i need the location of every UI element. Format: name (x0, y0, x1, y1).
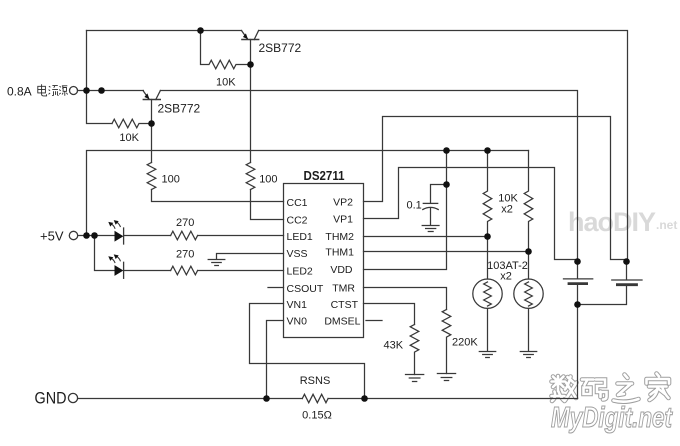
svg-text:THM2: THM2 (325, 231, 354, 243)
svg-text:0.8A: 0.8A (7, 85, 32, 99)
terminal 0.8A current source (70, 87, 78, 95)
wire +5V riser and rail to 10K x2 pullup 2 (87, 151, 529, 236)
svg-text:DS2711: DS2711 (304, 168, 345, 183)
LED D1 (108, 220, 123, 244)
capacitor C1 0.1 (422, 185, 446, 232)
svg-text:VP2: VP2 (333, 197, 353, 209)
node: +5V LED2 branch (91, 232, 98, 239)
wire TMR to 220K (364, 288, 447, 310)
svg-text:10K: 10K (119, 132, 139, 144)
node: battery2 top (623, 258, 630, 265)
WATERMARKS (551, 207, 677, 434)
resistor 270 (LED1) (171, 231, 198, 240)
resistor 43K (410, 325, 419, 375)
wire 0.8A terminal to Q2 emitter (78, 90, 144, 92)
resistor 100 (left) (147, 163, 156, 190)
node: VN0 / GND line (263, 395, 270, 402)
node: THM1 / pullup2 (525, 248, 532, 255)
wire +5V terminal to LED1 (78, 235, 115, 237)
svg-text:CC1: CC1 (287, 197, 308, 209)
wire 270 to LED1 pin (198, 235, 284, 237)
resistor 10K x2 (pullup 1) (483, 151, 492, 237)
wire LED1 to 270 resistor (124, 235, 171, 237)
svg-text:CC2: CC2 (287, 214, 308, 226)
wire VDD to +5V tap vertical (364, 151, 447, 270)
node: THM2 / pullup1 (484, 233, 491, 240)
svg-text:VSS: VSS (287, 248, 308, 260)
wire THM1 to 10K pullup 2 (364, 251, 529, 253)
wire 100 right bottom to CC2 (251, 190, 284, 220)
svg-text:LED2: LED2 (287, 266, 313, 278)
wire GND line right (328, 398, 577, 400)
svg-text:haoDIY: haoDIY (568, 207, 656, 237)
resistor 10K (Q2 base) (112, 119, 152, 128)
wire THM2 to 10K pullup 1 (364, 236, 488, 238)
svg-text:.net: .net (656, 218, 677, 232)
resistor 10K (Q1 base) (201, 31, 251, 69)
svg-text:VDD: VDD (330, 264, 353, 276)
wire CTST to 43K (364, 304, 415, 325)
wire LED2 to 270 resistor (124, 270, 171, 272)
node: battery negatives join (574, 301, 581, 308)
wire pullup2 to thermistor 2 (528, 252, 530, 280)
node: +5V riser junction (83, 232, 90, 239)
svg-text:100: 100 (259, 174, 277, 186)
node: rail / pullup1 (484, 147, 491, 154)
wire left vertical from top rail down to 0.8A node and 10K base resistor (87, 31, 113, 124)
battery BT1 (564, 262, 593, 399)
node: rail / VDD tap (443, 147, 450, 154)
svg-text:270: 270 (176, 217, 194, 229)
wire Q2 base vertical down to 100 ohm resistor 1 (151, 124, 153, 163)
ground (220K) (437, 374, 455, 381)
svg-text:0.1: 0.1 (407, 200, 422, 212)
resistor 220K (442, 310, 451, 374)
svg-text:RSNS: RSNS (300, 375, 331, 387)
svg-text:CSOUT: CSOUT (287, 283, 324, 295)
watermark shuma zhijia glyphs (hollow bold strokes) (552, 374, 670, 402)
wire VP2 riser to battery 2 top (364, 117, 627, 260)
svg-text:x2: x2 (500, 270, 512, 282)
node: 0.8A line second junction (98, 87, 105, 94)
node: 0.8A rail junction (83, 87, 90, 94)
resistor 270 (LED2) (171, 266, 198, 275)
wire pullup1 to thermistor 1 (487, 237, 489, 280)
thermistor RT2 103AT-2 (514, 279, 543, 358)
svg-text:2SB772: 2SB772 (259, 41, 302, 55)
terminal GND (68, 393, 77, 402)
svg-text:270: 270 (176, 249, 194, 261)
LED D2 (108, 254, 123, 278)
wire 100 left bottom to CC1 (152, 190, 284, 202)
wire branch to LED2 row (95, 236, 115, 271)
wire VSS to ground (217, 254, 284, 259)
wire DMSEL stub (366, 320, 382, 322)
IC U1 DS2711 box (284, 184, 364, 338)
svg-text:DMSEL: DMSEL (324, 315, 360, 327)
wire top supply rail left (87, 30, 242, 32)
svg-text:x2: x2 (501, 204, 513, 216)
battery BT2 (578, 262, 643, 305)
wire CSOUT stub (268, 287, 284, 289)
wire Q1 base vertical down to 100 ohm resistor 2 (250, 65, 252, 163)
ground (VSS) (208, 260, 225, 266)
svg-text:43K: 43K (384, 339, 404, 351)
node: VN1 / RSNS right (361, 395, 368, 402)
label dianliuyuan glyphs (38, 84, 68, 96)
wire VN0 to GND line (267, 321, 284, 399)
pin labels right (324, 197, 360, 328)
wire GND line left (78, 398, 303, 400)
node: battery1 top (574, 258, 581, 265)
svg-text:VP1: VP1 (333, 214, 353, 226)
terminal +5V (69, 231, 77, 239)
transistor Q1 2SB772 (top PNP) (242, 31, 259, 65)
node: Q1 base / 10K (247, 61, 254, 68)
svg-text:0.15Ω: 0.15Ω (302, 409, 332, 421)
resistor RSNS 0.15ohm (302, 394, 328, 402)
svg-text:100: 100 (162, 174, 180, 186)
pin labels left (287, 197, 324, 327)
svg-text:VN0: VN0 (287, 315, 308, 327)
svg-text:LED1: LED1 (287, 231, 313, 243)
svg-text:CTST: CTST (331, 299, 359, 311)
thermistor RT1 103AT-2 (473, 279, 502, 358)
wire top rail right segment to right edge and down to battery 2 (259, 31, 628, 262)
wire 270 to LED2 pin (198, 270, 284, 272)
ground (43K) (406, 375, 424, 382)
svg-text:220K: 220K (452, 336, 478, 348)
wire VP1 riser to battery 1 top (364, 168, 578, 260)
wire Q2 collector line to right then down to battery 1 (160, 91, 577, 262)
svg-text:THM1: THM1 (325, 247, 354, 259)
svg-text:TMR: TMR (332, 283, 355, 295)
svg-text:GND: GND (35, 390, 67, 408)
svg-text:2SB772: 2SB772 (158, 102, 201, 116)
node: top rail / 10K (197, 27, 204, 34)
resistor 10K x2 (pullup 2) (524, 151, 533, 252)
wire VN1 to RSNS right node (250, 304, 365, 399)
node: cap 0.1 tap (443, 181, 450, 188)
svg-text:VN1: VN1 (287, 299, 308, 311)
svg-text:+5V: +5V (40, 229, 64, 244)
resistor 100 (right) (246, 163, 255, 190)
node: Q2 base / 10K (148, 120, 155, 127)
transistor Q2 2SB772 (lower PNP) (143, 91, 160, 124)
svg-text:MyDigit.net: MyDigit.net (551, 402, 673, 434)
svg-text:10K: 10K (216, 77, 236, 89)
